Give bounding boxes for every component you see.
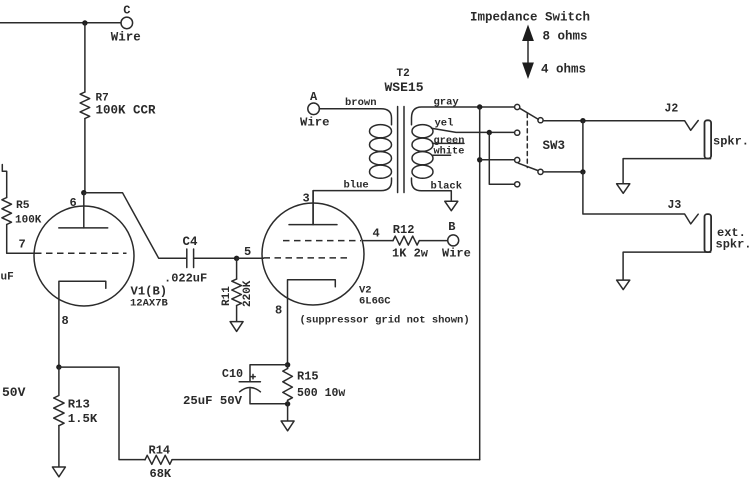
svg-text:25uF 50V: 25uF 50V (183, 394, 243, 408)
svg-text:Wire: Wire (300, 116, 330, 130)
svg-text:Wire: Wire (442, 247, 471, 261)
svg-text:C: C (123, 4, 130, 18)
svg-text:B: B (448, 220, 455, 234)
svg-text:4: 4 (373, 227, 380, 241)
svg-text:1.5K: 1.5K (68, 412, 98, 426)
svg-text:68K: 68K (150, 467, 172, 481)
svg-text:yel: yel (435, 118, 454, 130)
svg-text:C10: C10 (222, 367, 243, 381)
svg-text:6L6GC: 6L6GC (359, 296, 391, 308)
svg-text:brown: brown (345, 97, 377, 109)
svg-text:12AX7B: 12AX7B (130, 298, 169, 310)
svg-text:V1(B): V1(B) (131, 285, 168, 299)
svg-text:3: 3 (303, 192, 310, 206)
svg-text:Wire: Wire (111, 31, 141, 45)
svg-text:gray: gray (434, 97, 460, 109)
svg-text:Impedance Switch: Impedance Switch (470, 11, 590, 25)
svg-text:8: 8 (62, 314, 69, 328)
svg-text:A: A (310, 90, 318, 104)
svg-text:J3: J3 (668, 199, 682, 212)
svg-text:spkr.: spkr. (713, 135, 749, 149)
svg-text:blue: blue (344, 180, 369, 192)
svg-text:8: 8 (275, 304, 282, 318)
svg-text:100K CCR: 100K CCR (96, 104, 157, 118)
svg-text:R11: R11 (221, 286, 233, 306)
svg-text:500 10w: 500 10w (297, 387, 345, 400)
svg-text:1K 2w: 1K 2w (392, 247, 429, 261)
svg-text:R12: R12 (393, 223, 415, 237)
svg-text:black: black (431, 181, 463, 193)
svg-text:T2: T2 (397, 68, 410, 80)
svg-text:4 ohms: 4 ohms (541, 63, 586, 77)
svg-text:uF: uF (1, 272, 14, 284)
svg-text:7: 7 (19, 238, 26, 252)
svg-text:(suppressor grid not shown): (suppressor grid not shown) (300, 315, 470, 327)
svg-text:6: 6 (70, 196, 77, 210)
svg-text:5: 5 (244, 245, 251, 259)
svg-text:220K: 220K (242, 280, 254, 307)
svg-text:R13: R13 (68, 398, 90, 412)
svg-text:C4: C4 (183, 235, 199, 249)
svg-text:WSE15: WSE15 (385, 80, 424, 95)
svg-text:100K: 100K (15, 215, 42, 227)
svg-text:8 ohms: 8 ohms (543, 30, 588, 44)
svg-text:R14: R14 (149, 444, 171, 458)
svg-text:spkr.: spkr. (716, 238, 752, 252)
svg-text:.022uF: .022uF (164, 271, 207, 285)
svg-text:50V: 50V (2, 385, 26, 400)
svg-text:R5: R5 (16, 200, 30, 212)
svg-text:SW3: SW3 (543, 139, 566, 153)
svg-text:R15: R15 (297, 370, 319, 384)
svg-text:J2: J2 (665, 103, 679, 116)
